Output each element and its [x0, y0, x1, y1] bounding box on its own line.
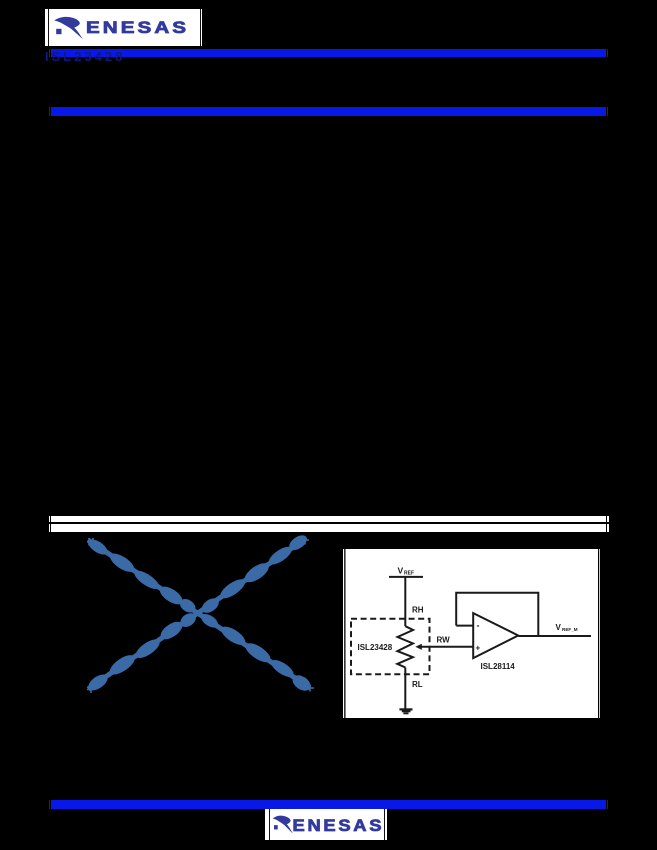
svg-text:+: + [476, 643, 481, 652]
blue rule bar 1 [49, 49, 608, 57]
dashed box ISL23428 [351, 618, 430, 674]
svg-text:-: - [477, 620, 480, 630]
bottom logo box inner border left [269, 809, 271, 840]
wire RL to ground [404, 667, 406, 708]
logo square dot [56, 29, 61, 34]
logo R swoosh (bottom) [272, 816, 292, 834]
chart rising line marker blobs [86, 671, 111, 693]
blue rule bar 2 [49, 107, 608, 116]
resistor (potentiometer body) [397, 626, 413, 667]
svg-text:ISL23428: ISL23428 [358, 643, 393, 652]
Renesas logo bottom [269, 812, 389, 842]
output wire [518, 635, 591, 637]
bottom logo box inner border right [384, 809, 386, 840]
white double rule upper [49, 516, 609, 522]
wiper arrowhead [415, 643, 421, 649]
chart rising line spine [88, 539, 305, 689]
svg-text:ENESAS: ENESAS [292, 816, 384, 835]
chart tip ticks top-right [300, 537, 309, 545]
chart tip ticks top-left [87, 538, 95, 546]
white double rule lower [49, 524, 609, 532]
bottom blue bar [49, 800, 608, 809]
logo ENESAS letters (bottom) [292, 816, 384, 835]
svg-text:RW: RW [437, 635, 451, 644]
top logo box inner border right [200, 9, 201, 46]
wire VREF to RH [404, 577, 406, 626]
chart tip ticks bottom-left [87, 686, 95, 693]
svg-text:V: V [556, 622, 562, 631]
wiper wire RW [421, 645, 474, 647]
VREF power rail [389, 575, 423, 577]
chart falling line spine [88, 540, 310, 688]
figure border right [598, 549, 599, 719]
chart tip ticks bottom-right [306, 685, 314, 692]
logo R swoosh [54, 17, 83, 39]
ground [399, 709, 412, 713]
logo square dot (bottom) [274, 825, 278, 829]
svg-text:RH: RH [412, 605, 424, 614]
bottom logo white box [265, 809, 387, 840]
top logo box inner border left [48, 9, 49, 46]
op-amp U1 triangle [473, 613, 518, 658]
figure border left [344, 549, 345, 719]
X chart figure [80, 530, 320, 700]
hidden part number text under bar [45, 51, 175, 63]
svg-text:RL: RL [412, 680, 423, 689]
svg-text:ENESAS: ENESAS [86, 18, 189, 37]
schematic figure white box [343, 549, 600, 719]
svg-text:REF_M: REF_M [562, 626, 578, 631]
wire to minus input [456, 624, 473, 626]
svg-text:REF: REF [404, 570, 414, 576]
svg-text:V: V [398, 565, 404, 575]
op-amp feedback loop [456, 592, 538, 635]
logo ENESAS letters [86, 18, 189, 37]
Renesas logo top [50, 14, 190, 44]
chart falling line marker blobs [86, 536, 110, 557]
svg-text:ISL28114: ISL28114 [481, 662, 516, 671]
top logo white box [45, 9, 203, 46]
